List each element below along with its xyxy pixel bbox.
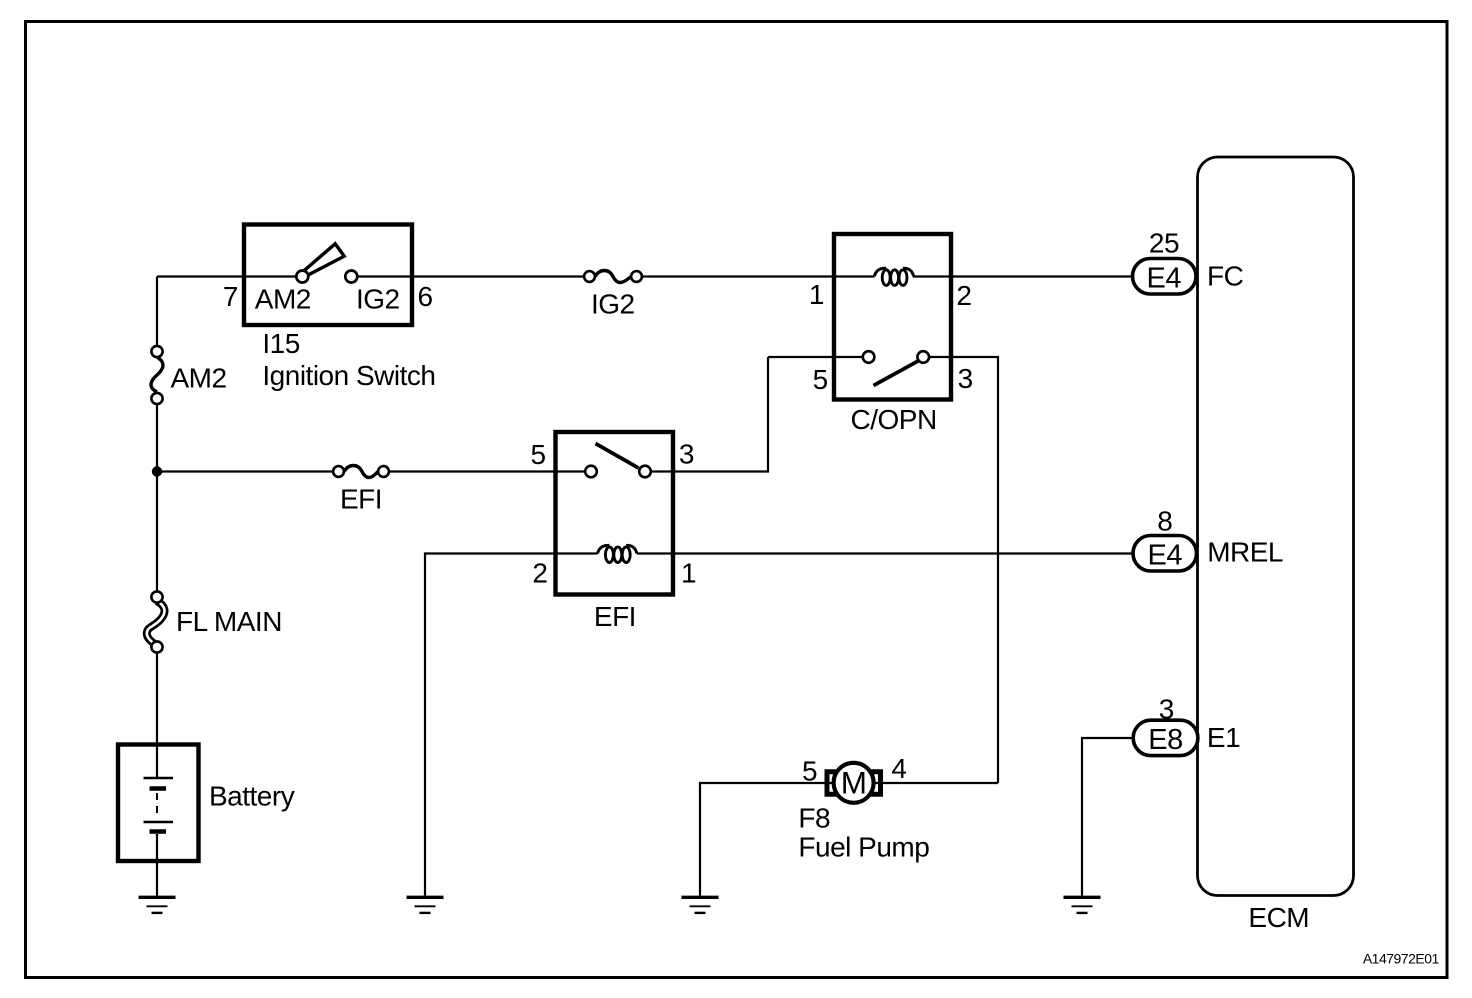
svg-text:6: 6: [418, 281, 433, 312]
ECM box: [1198, 157, 1354, 896]
relay C/OPN switch lever: [874, 361, 920, 386]
svg-text:IG2: IG2: [356, 284, 400, 315]
svg-text:2: 2: [532, 558, 547, 589]
contact label IG2: [356, 284, 400, 315]
relay EFI contact pin 5: [585, 466, 597, 478]
relay C/OPN coil: [874, 268, 913, 285]
relay EFI pin 5 label: [531, 439, 546, 470]
svg-text:IG2: IG2: [591, 289, 635, 320]
svg-text:Battery: Battery: [209, 781, 295, 812]
fuel pump motor F8: [827, 763, 881, 803]
svg-text:M: M: [841, 765, 867, 801]
fuse IG2: [584, 271, 642, 320]
wire: battery positive vertical to ignition row: [156, 277, 158, 347]
connector E4 pin 25 (FC): [1133, 228, 1197, 295]
svg-text:AM2: AM2: [255, 284, 311, 315]
relay C/OPN box: [834, 234, 951, 400]
fuel pump label F8 Fuel Pump: [798, 803, 929, 863]
ECM label: [1248, 902, 1309, 933]
relay C/OPN pin 2 label: [956, 280, 971, 311]
wire: fuel pump left leg to ground: [700, 783, 835, 896]
relay C/OPN pin 5 label: [813, 364, 828, 395]
svg-text:1: 1: [681, 558, 696, 589]
svg-text:MREL: MREL: [1207, 537, 1283, 568]
relay C/OPN pin 3 label: [958, 363, 973, 394]
svg-text:A147972E01: A147972E01: [1363, 950, 1440, 966]
wire: C/OPN pin 3 to fuel pump riser: [929, 357, 998, 783]
svg-text:5: 5: [813, 364, 828, 395]
wire: junction to EFI fuse: [157, 470, 333, 472]
wire: EFI coil row left with ground riser: [425, 554, 598, 896]
svg-text:FL MAIN: FL MAIN: [176, 606, 282, 637]
svg-text:AM2: AM2: [171, 363, 227, 394]
ignition switch key lever: [303, 244, 344, 276]
contact label AM2: [255, 284, 311, 315]
fuel pump pin 5 label: [802, 756, 817, 787]
wire: ignition row from vertical to IG2 fuse: [157, 275, 585, 277]
connector E8 pin 3 (E1): [1133, 694, 1198, 756]
relay EFI pin 1 label: [681, 558, 696, 589]
ground: EFI relay coil: [407, 897, 444, 913]
svg-text:I15: I15: [262, 328, 299, 359]
net label FC: [1207, 260, 1244, 291]
svg-text:3: 3: [958, 363, 973, 394]
svg-text:E1: E1: [1207, 722, 1240, 753]
wire: IG2 fuse to C/OPN coil: [642, 275, 875, 277]
ground: E1: [1064, 897, 1101, 913]
ground: fuel pump: [682, 897, 719, 913]
svg-text:EFI: EFI: [340, 484, 382, 515]
svg-text:E4: E4: [1148, 540, 1183, 572]
battery cell symbol: [144, 745, 295, 896]
svg-text:5: 5: [531, 439, 546, 470]
relay EFI pin 3 label: [679, 439, 694, 470]
ignition switch I15 box: [244, 225, 412, 326]
relay EFI contact pin 3: [639, 466, 651, 478]
svg-text:E4: E4: [1147, 263, 1182, 295]
relay C/OPN contact pin 3: [917, 351, 929, 363]
relay EFI label: [594, 601, 636, 632]
relay C/OPN label: [851, 404, 937, 435]
ignition switch contact IG2 pin 6: [345, 271, 357, 283]
svg-text:C/OPN: C/OPN: [851, 404, 937, 435]
svg-text:Fuel Pump: Fuel Pump: [798, 831, 929, 862]
svg-text:7: 7: [223, 281, 238, 312]
net label MREL: [1207, 537, 1283, 568]
wire: fuel pump right to riser: [872, 782, 998, 784]
svg-text:5: 5: [802, 756, 817, 787]
svg-text:FC: FC: [1207, 260, 1244, 291]
svg-text:8: 8: [1157, 506, 1172, 537]
node: junction dot: [152, 466, 162, 476]
relay EFI coil: [598, 545, 637, 562]
wire: EFI coil to ECM MREL: [637, 552, 1133, 554]
wire: AM2 fuse to junction: [156, 404, 158, 592]
component label I15 Ignition Switch: [262, 328, 435, 391]
svg-text:25: 25: [1149, 228, 1179, 259]
wire: FL MAIN to battery: [156, 653, 158, 745]
relay C/OPN contact pin 5: [863, 351, 875, 363]
svg-text:2: 2: [956, 280, 971, 311]
relay C/OPN pin 1 label: [809, 279, 824, 310]
net label E1: [1207, 722, 1240, 753]
relay EFI pin 2 label: [532, 558, 547, 589]
wire: EFI fuse to EFI relay pin 5: [389, 470, 586, 472]
wire: E1 ground leg: [1082, 738, 1133, 896]
ignition switch contact AM2 pin 7: [296, 271, 308, 283]
fusible link FL MAIN: [147, 591, 282, 652]
svg-text:F8: F8: [798, 803, 830, 834]
svg-text:Ignition Switch: Ignition Switch: [262, 360, 435, 391]
svg-text:4: 4: [891, 753, 906, 784]
connector E4 pin 8 (MREL): [1133, 506, 1197, 572]
wire: C/OPN pin 2 to ECM FC: [913, 275, 1133, 277]
fuel pump pin 4 label: [891, 753, 906, 784]
svg-text:3: 3: [679, 439, 694, 470]
svg-text:ECM: ECM: [1248, 902, 1309, 933]
battery box: [118, 745, 199, 862]
figure number label: [1363, 950, 1440, 966]
svg-text:3: 3: [1159, 694, 1174, 725]
wire: C/OPN switch row from riser: [768, 356, 863, 358]
fuse EFI: [333, 466, 389, 515]
wire: EFI pin 3 to C/OPN riser: [651, 357, 768, 472]
fuse AM2: [151, 346, 227, 404]
relay EFI switch lever: [596, 444, 639, 469]
pin 6 label: [418, 281, 433, 312]
svg-text:EFI: EFI: [594, 601, 636, 632]
relay EFI box: [556, 432, 674, 595]
ground: battery: [139, 897, 176, 913]
pin 7 label: [223, 281, 238, 312]
svg-text:E8: E8: [1148, 724, 1182, 756]
svg-text:1: 1: [809, 279, 824, 310]
